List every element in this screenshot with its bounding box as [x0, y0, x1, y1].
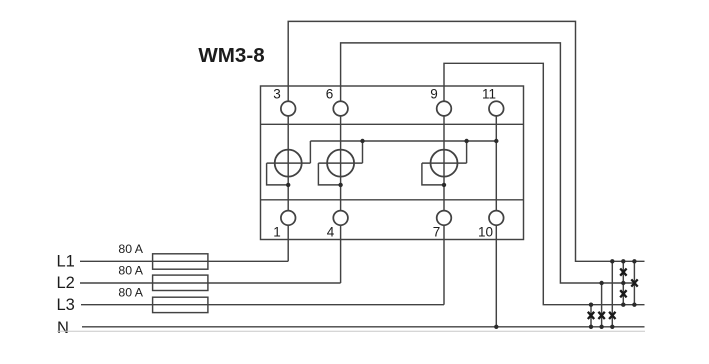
terminal 3 circle	[281, 101, 296, 116]
fuse F3 80A	[153, 297, 208, 312]
svg-text:WM3-8: WM3-8	[198, 44, 264, 67]
node E bottom on L3-out	[632, 303, 636, 307]
wire N line across bottom	[82, 326, 645, 328]
terminal 9 circle	[437, 101, 452, 116]
svg-text:7: 7	[433, 225, 441, 240]
node terminal10 wire to N	[494, 325, 498, 329]
terminal 1 circle	[281, 211, 296, 226]
meter bottom divider	[261, 199, 524, 201]
svg-text:11: 11	[482, 87, 496, 102]
wire terminal 6 to coil 2 to terminal 4	[340, 116, 342, 211]
svg-text:80 A: 80 A	[118, 242, 143, 256]
svg-text:10: 10	[478, 225, 493, 240]
wire terminal 3 to coil 1 to terminal 1	[287, 116, 289, 211]
wire L3 phase: terminal 9 up over right side down to load	[444, 63, 645, 304]
load link wire D (L1-L2-L3)	[622, 261, 624, 304]
meter top divider	[261, 123, 524, 125]
coil M3 horizontal crossbar	[422, 162, 467, 164]
connection x-marks	[588, 269, 638, 320]
fuse F2 80A	[153, 275, 208, 290]
svg-text:3: 3	[273, 87, 281, 102]
svg-text:80 A: 80 A	[118, 286, 143, 300]
node B bottom on N	[599, 325, 603, 329]
node D top on L1-out	[621, 259, 625, 263]
measuring element M1 circle	[275, 150, 302, 177]
coil M2 riser to voltage bus	[362, 141, 364, 163]
node E top on L1-out	[632, 259, 636, 263]
x-mark E link	[631, 279, 637, 286]
node coil M3 phase tap	[442, 183, 446, 187]
x-mark C neutral link	[609, 312, 615, 319]
node bus-M2 riser	[360, 139, 364, 143]
load link wire E (L1 to L3)	[633, 261, 635, 304]
node D bottom on L3-out	[621, 303, 625, 307]
wire terminal 7 down to L3 line	[443, 225, 445, 305]
terminal 7 circle	[437, 211, 452, 226]
wire terminal 10 down to N line	[495, 225, 497, 327]
measuring element M2 circle	[327, 150, 354, 177]
voltage bus to terminal 11	[310, 140, 496, 142]
node A bottom on N	[589, 325, 593, 329]
load link wire B (L2 to N)	[601, 283, 603, 327]
measuring element M3 circle	[431, 150, 458, 177]
x-mark B neutral link	[598, 312, 604, 319]
node coil M2 phase tap	[338, 183, 342, 187]
wire L2 phase: terminal 6 up over right side down to load	[341, 43, 635, 283]
svg-text:L1: L1	[57, 253, 75, 271]
svg-text:80 A: 80 A	[118, 264, 143, 278]
node D mid on L2-out	[621, 281, 625, 285]
wire L1 phase: terminal 3 up over right side down to load	[288, 21, 644, 261]
node bus-M3 riser	[464, 139, 468, 143]
node B top on L2-out	[599, 281, 603, 285]
wire terminal 1 down to L1 line	[287, 225, 289, 261]
svg-text:1: 1	[273, 225, 281, 240]
coil M2 horizontal crossbar	[318, 162, 362, 164]
x-mark D upper link	[620, 269, 626, 276]
wire L2 input from label through fuse to terminal 4	[80, 282, 341, 284]
meter outline box	[261, 86, 524, 240]
node C bottom on N	[610, 325, 614, 329]
coil M1 riser to voltage bus	[309, 141, 311, 163]
terminal 11 circle	[489, 101, 504, 116]
coil M3 left loop to phase junction	[422, 163, 444, 185]
svg-text:L2: L2	[57, 274, 75, 292]
faint page line under N	[57, 330, 645, 332]
wire terminal 11 down to terminal 10	[495, 116, 497, 211]
terminal 6 circle	[333, 101, 348, 116]
x-mark D lower link	[620, 290, 626, 297]
wire terminal 4 down to L2 line	[340, 225, 342, 283]
terminal 10 circle	[489, 211, 504, 226]
svg-text:L3: L3	[57, 296, 75, 314]
x-mark A neutral link	[588, 312, 594, 319]
load link wire C (L1 to N)	[611, 261, 613, 327]
terminal 4 circle	[333, 211, 348, 226]
wire terminal 9 to coil 3 to terminal 7	[443, 116, 445, 211]
svg-text:9: 9	[430, 87, 438, 102]
coil M1 horizontal crossbar	[267, 162, 311, 164]
coil M3 riser to voltage bus	[466, 141, 468, 163]
svg-text:6: 6	[326, 87, 334, 102]
node bus-terminal11 wire	[494, 139, 498, 143]
node A top on L3-out	[589, 303, 593, 307]
wire L3 input from label through fuse to terminal 7	[81, 304, 444, 306]
wire L1 input from label through fuse to terminal 1	[80, 260, 288, 262]
svg-text:4: 4	[327, 225, 335, 240]
coil M1 left loop to phase junction	[267, 163, 289, 185]
node coil M1 phase tap	[286, 183, 290, 187]
svg-text:N: N	[57, 319, 69, 337]
load link wire A (L3 to N)	[590, 305, 592, 327]
fuse F1 80A	[153, 254, 208, 269]
coil M2 left loop to phase junction	[318, 163, 340, 185]
node C top on L1-out	[610, 259, 614, 263]
